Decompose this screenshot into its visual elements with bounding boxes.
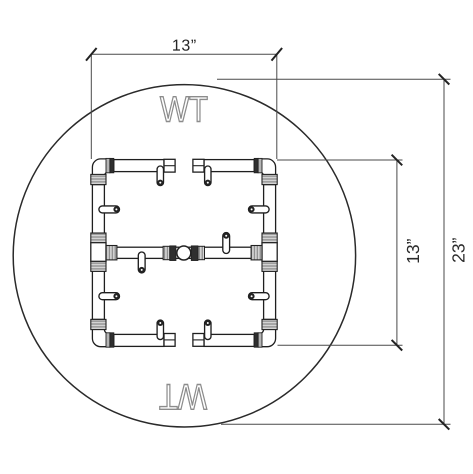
dimension 13in top: tick right [272, 48, 283, 61]
end fitting bottom-right (tee socket) [193, 334, 204, 347]
elbow top-left [91, 158, 114, 184]
pipe: bottom rail left segment [114, 334, 164, 346]
end fitting top-right (tee socket) [193, 159, 204, 172]
nozzle stub middle-down [138, 252, 145, 273]
nozzle stub left-upper (right) [99, 206, 120, 213]
svg-text:WT: WT [160, 88, 208, 129]
dimension 13in top: dimension line [91, 53, 276, 55]
end fitting top-left (tee socket) [164, 159, 175, 172]
svg-text:13”: 13” [403, 238, 423, 263]
dimension 23in: extension line top [217, 78, 451, 80]
nozzle stub top-left (down) [157, 166, 163, 186]
pipe: top rail right segment [204, 160, 254, 172]
dimension 13in top: extension line left [90, 54, 92, 159]
dimension 13in right: dimension line [396, 160, 398, 345]
nozzle stub bottom-right (up) [205, 320, 211, 340]
dimension 13in right: tick top [392, 155, 403, 166]
dimension 23in: dimension line [443, 79, 445, 424]
dimension 13in top: text [172, 38, 197, 55]
dimension 23in: extension line bottom [221, 423, 451, 425]
pipe: top rail left segment [114, 160, 164, 172]
tank circle WT [13, 85, 355, 427]
dimension 13in right: text [403, 238, 423, 263]
end fitting bottom-left (tee socket) [164, 334, 175, 347]
nozzle stub right-lower (left) [249, 293, 270, 300]
dimension 23in: tick top [439, 74, 450, 85]
nozzle stub top-right (down) [205, 166, 211, 186]
tee left mid [91, 233, 117, 271]
svg-text:13”: 13” [172, 38, 197, 55]
dimension 23in: tick bottom [439, 419, 450, 430]
nozzle stub bottom-left (up) [157, 320, 163, 340]
elbow bottom-left [91, 319, 114, 347]
svg-text:WT: WT [159, 376, 207, 417]
dimension 13in top: extension line right [276, 54, 278, 159]
center cross fitting with port circle [163, 246, 204, 261]
pipe: right rail [264, 184, 276, 321]
nozzle stub middle-up [223, 233, 230, 254]
dimension 23in: text [448, 237, 468, 262]
pipe: middle rail [116, 247, 253, 258]
nozzle stub left-lower (right) [99, 293, 120, 300]
pipe: left rail [92, 184, 104, 321]
dimension 13in top: tick left [86, 48, 97, 61]
tee right mid [251, 233, 277, 271]
elbow top-right [254, 158, 277, 184]
svg-text:23”: 23” [448, 237, 468, 262]
dimension 13in right: tick bottom [392, 340, 403, 351]
pipe: bottom rail right segment [204, 334, 254, 346]
nozzle stub right-upper (left) [249, 206, 270, 213]
elbow bottom-right [254, 319, 277, 347]
dimension 13in right: extension line top [277, 159, 403, 161]
dimension 13in right: extension line bottom [278, 344, 403, 346]
